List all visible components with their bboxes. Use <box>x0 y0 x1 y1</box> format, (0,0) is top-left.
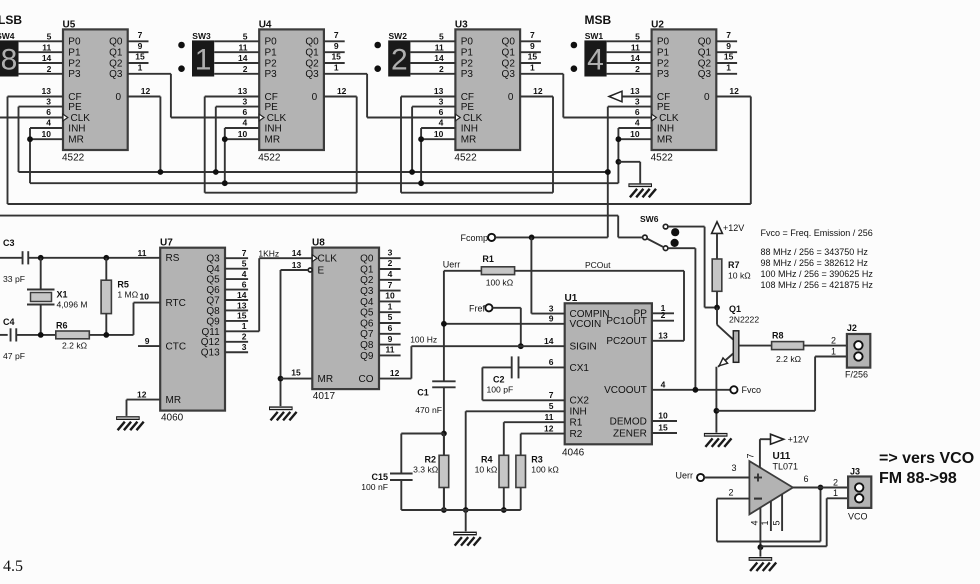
svg-text:1: 1 <box>833 488 838 498</box>
svg-text:C2: C2 <box>493 375 505 385</box>
svg-text:4522: 4522 <box>651 153 674 164</box>
svg-text:12: 12 <box>729 86 739 96</box>
svg-text:R1: R1 <box>482 254 494 264</box>
svg-text:R4: R4 <box>481 455 493 465</box>
svg-text:4: 4 <box>242 269 247 279</box>
svg-text:Q12: Q12 <box>201 337 220 348</box>
svg-text:5: 5 <box>635 32 640 42</box>
svg-text:7: 7 <box>334 30 339 40</box>
svg-text:9: 9 <box>726 41 731 51</box>
svg-text:2: 2 <box>661 310 666 320</box>
svg-text:7: 7 <box>745 453 755 458</box>
svg-text:9: 9 <box>138 41 143 51</box>
svg-text:CLK: CLK <box>318 254 338 265</box>
svg-text:C15: C15 <box>371 472 388 482</box>
svg-text:100 kΩ: 100 kΩ <box>531 465 559 475</box>
svg-text:P0: P0 <box>68 37 81 48</box>
svg-text:10: 10 <box>385 291 395 301</box>
svg-text:R2: R2 <box>424 455 436 465</box>
svg-text:SW4: SW4 <box>0 31 15 41</box>
svg-text:2: 2 <box>439 64 444 74</box>
svg-text:108 MHz / 256 = 421875 Hz: 108 MHz / 256 = 421875 Hz <box>761 280 874 290</box>
svg-text:Q3: Q3 <box>502 69 516 80</box>
svg-text:1KHz: 1KHz <box>258 249 279 259</box>
svg-text:INH: INH <box>570 407 587 418</box>
svg-text:100 pF: 100 pF <box>487 385 514 395</box>
svg-text:U3: U3 <box>455 20 468 31</box>
svg-text:MR: MR <box>166 395 182 406</box>
svg-text:11: 11 <box>435 42 444 52</box>
svg-text:4: 4 <box>661 379 666 389</box>
svg-text:MSB: MSB <box>585 13 612 27</box>
svg-text:Q3: Q3 <box>360 286 374 297</box>
svg-text:2N2222: 2N2222 <box>729 315 759 325</box>
svg-text:PE: PE <box>265 102 279 113</box>
svg-text:INH: INH <box>265 123 282 134</box>
svg-text:3: 3 <box>242 342 247 352</box>
svg-text:98 MHz / 256 = 382612 Hz: 98 MHz / 256 = 382612 Hz <box>761 258 869 268</box>
svg-text:Q7: Q7 <box>206 295 220 306</box>
svg-text:12: 12 <box>137 390 147 400</box>
svg-text:Q3: Q3 <box>698 69 712 80</box>
svg-text:P1: P1 <box>657 48 670 59</box>
svg-text:100 kΩ: 100 kΩ <box>486 278 514 288</box>
svg-text:MR: MR <box>657 135 673 146</box>
svg-text:INH: INH <box>68 123 85 134</box>
svg-text:Q6: Q6 <box>360 318 374 329</box>
svg-text:CTC: CTC <box>166 342 187 353</box>
svg-text:VCOIN: VCOIN <box>570 319 602 330</box>
svg-text:6: 6 <box>439 107 444 117</box>
svg-text:Q8: Q8 <box>206 306 220 317</box>
svg-text:2: 2 <box>388 258 393 268</box>
svg-text:P1: P1 <box>461 48 474 59</box>
svg-text:4522: 4522 <box>454 153 477 164</box>
svg-text:2: 2 <box>47 64 52 74</box>
svg-text:PE: PE <box>68 102 82 113</box>
svg-text:33 pF: 33 pF <box>3 274 25 284</box>
svg-text:2: 2 <box>833 477 838 487</box>
svg-text:1: 1 <box>760 520 770 525</box>
svg-text:0: 0 <box>115 92 121 103</box>
svg-text:1: 1 <box>242 321 247 331</box>
svg-text:U4: U4 <box>259 20 272 31</box>
svg-text:Q7: Q7 <box>360 329 374 340</box>
svg-text:15: 15 <box>135 52 145 62</box>
svg-text:P1: P1 <box>68 48 81 59</box>
svg-text:INH: INH <box>657 123 674 134</box>
svg-text:Q1: Q1 <box>502 48 516 59</box>
svg-text:7: 7 <box>530 30 535 40</box>
svg-text:12: 12 <box>544 423 554 433</box>
svg-text:4: 4 <box>46 118 51 128</box>
svg-text:Q2: Q2 <box>360 275 374 286</box>
svg-text:6: 6 <box>242 107 247 117</box>
svg-text:12: 12 <box>141 86 151 96</box>
svg-text:6: 6 <box>46 107 51 117</box>
svg-text:11: 11 <box>42 42 51 52</box>
svg-text:C1: C1 <box>417 388 429 398</box>
svg-text:RTC: RTC <box>166 298 186 309</box>
svg-text:CLK: CLK <box>463 113 483 124</box>
svg-text:P3: P3 <box>461 69 474 80</box>
svg-text:5: 5 <box>439 32 444 42</box>
svg-text:13: 13 <box>238 86 248 96</box>
svg-text:8: 8 <box>1 44 18 77</box>
svg-text:P3: P3 <box>68 69 81 80</box>
svg-text:3: 3 <box>635 96 640 106</box>
svg-text:1: 1 <box>388 301 393 311</box>
svg-text:SW2: SW2 <box>389 31 408 41</box>
svg-text:15: 15 <box>291 368 301 378</box>
svg-text:Uerr: Uerr <box>676 471 694 481</box>
svg-text:2: 2 <box>243 64 248 74</box>
svg-text:7: 7 <box>726 30 731 40</box>
svg-text:E: E <box>318 265 325 276</box>
svg-text:J3: J3 <box>850 467 860 477</box>
svg-text:Q0: Q0 <box>360 254 374 265</box>
svg-text:11: 11 <box>386 345 395 355</box>
svg-text:Q2: Q2 <box>698 58 712 69</box>
svg-text:1: 1 <box>530 63 535 73</box>
svg-text:SIGIN: SIGIN <box>570 342 597 353</box>
svg-text:LSB: LSB <box>0 13 22 27</box>
svg-text:CX1: CX1 <box>570 363 590 374</box>
svg-text:10: 10 <box>238 129 248 139</box>
svg-text:MR: MR <box>68 135 84 146</box>
svg-text:R6: R6 <box>56 321 68 331</box>
svg-text:Q2: Q2 <box>305 58 319 69</box>
svg-text:1: 1 <box>831 347 836 357</box>
svg-text:2: 2 <box>635 64 640 74</box>
svg-text:1: 1 <box>195 44 212 77</box>
svg-text:10 kΩ: 10 kΩ <box>475 465 498 475</box>
svg-text:3: 3 <box>439 96 444 106</box>
svg-text:R5: R5 <box>117 280 129 290</box>
svg-text:2.2 kΩ: 2.2 kΩ <box>776 354 802 364</box>
svg-text:6: 6 <box>549 357 554 367</box>
svg-text:6: 6 <box>388 323 393 333</box>
svg-text:J2: J2 <box>847 323 857 333</box>
svg-text:ZENER: ZENER <box>613 428 647 439</box>
svg-text:CX2: CX2 <box>570 396 590 407</box>
svg-text:3: 3 <box>731 463 736 473</box>
svg-text:Q1: Q1 <box>729 304 741 314</box>
svg-text:CO: CO <box>359 374 374 385</box>
svg-text:4: 4 <box>242 118 247 128</box>
svg-text:=> vers VCO: => vers VCO <box>879 450 974 467</box>
svg-text:9: 9 <box>549 314 554 324</box>
svg-text:14: 14 <box>292 248 302 258</box>
svg-text:Fref: Fref <box>469 304 486 314</box>
svg-text:U11: U11 <box>773 451 791 462</box>
svg-text:P2: P2 <box>461 58 474 69</box>
svg-text:4.5: 4.5 <box>3 558 23 575</box>
svg-text:Uerr: Uerr <box>443 259 461 269</box>
svg-text:0: 0 <box>704 92 710 103</box>
svg-text:Q2: Q2 <box>109 58 123 69</box>
svg-text:11: 11 <box>631 42 640 52</box>
svg-text:11: 11 <box>138 248 147 258</box>
svg-text:3: 3 <box>388 247 393 257</box>
svg-text:Q3: Q3 <box>109 69 123 80</box>
svg-text:U8: U8 <box>312 237 325 248</box>
svg-text:P0: P0 <box>657 37 670 48</box>
svg-text:47 pF: 47 pF <box>3 351 25 361</box>
svg-text:U2: U2 <box>651 20 664 31</box>
svg-text:X1: X1 <box>57 290 68 300</box>
svg-text:U5: U5 <box>63 20 76 31</box>
svg-text:100 MHz / 256 = 390625 Hz: 100 MHz / 256 = 390625 Hz <box>761 269 874 279</box>
svg-text:P0: P0 <box>265 37 278 48</box>
svg-text:Q1: Q1 <box>305 48 319 59</box>
svg-text:Q1: Q1 <box>698 48 712 59</box>
svg-text:P2: P2 <box>68 58 81 69</box>
svg-text:12: 12 <box>390 368 400 378</box>
svg-text:1: 1 <box>726 63 731 73</box>
svg-text:13: 13 <box>630 86 640 96</box>
svg-text:Q0: Q0 <box>305 37 319 48</box>
svg-text:14: 14 <box>237 290 247 300</box>
svg-text:9: 9 <box>388 334 393 344</box>
svg-text:PE: PE <box>461 102 475 113</box>
svg-text:13: 13 <box>658 330 668 340</box>
svg-text:Q5: Q5 <box>360 308 374 319</box>
svg-text:13: 13 <box>42 86 52 96</box>
svg-text:14: 14 <box>238 53 248 63</box>
svg-text:13: 13 <box>434 86 444 96</box>
svg-text:F/256: F/256 <box>845 370 868 380</box>
svg-text:4522: 4522 <box>258 153 281 164</box>
svg-text:9: 9 <box>145 336 150 346</box>
svg-text:INH: INH <box>461 123 478 134</box>
svg-text:PCOut: PCOut <box>585 260 611 270</box>
svg-text:CLK: CLK <box>659 113 679 124</box>
svg-text:FM 88->98: FM 88->98 <box>879 470 957 487</box>
svg-text:14: 14 <box>630 53 640 63</box>
svg-text:Q3: Q3 <box>305 69 319 80</box>
svg-text:4017: 4017 <box>313 391 336 402</box>
svg-text:4: 4 <box>635 118 640 128</box>
svg-text:CLK: CLK <box>71 113 91 124</box>
svg-text:10: 10 <box>434 129 444 139</box>
svg-text:Q11: Q11 <box>202 327 221 338</box>
svg-text:PE: PE <box>657 102 671 113</box>
svg-text:Q1: Q1 <box>360 264 374 275</box>
svg-text:7: 7 <box>242 248 247 258</box>
svg-text:DEMOD: DEMOD <box>610 416 647 427</box>
svg-text:4: 4 <box>439 118 444 128</box>
svg-text:R3: R3 <box>531 455 543 465</box>
svg-text:6: 6 <box>242 279 247 289</box>
svg-text:3: 3 <box>46 96 51 106</box>
svg-text:2.2 kΩ: 2.2 kΩ <box>62 341 88 351</box>
svg-text:1 MΩ: 1 MΩ <box>117 290 138 300</box>
svg-text:7: 7 <box>138 30 143 40</box>
svg-text:Q3: Q3 <box>206 254 220 265</box>
svg-text:P2: P2 <box>265 58 278 69</box>
svg-text:5: 5 <box>47 32 52 42</box>
svg-text:P3: P3 <box>657 69 670 80</box>
svg-text:5: 5 <box>242 258 247 268</box>
svg-text:P3: P3 <box>265 69 278 80</box>
svg-text:3: 3 <box>242 96 247 106</box>
svg-text:3.3 kΩ: 3.3 kΩ <box>413 465 439 475</box>
svg-text:R8: R8 <box>772 330 784 340</box>
svg-text:10: 10 <box>658 411 668 421</box>
svg-text:RS: RS <box>166 253 180 264</box>
svg-text:100 nF: 100 nF <box>361 482 388 492</box>
svg-text:15: 15 <box>724 52 734 62</box>
svg-text:Q1: Q1 <box>109 48 123 59</box>
svg-text:Fcomp: Fcomp <box>460 233 488 243</box>
svg-text:Q8: Q8 <box>360 340 374 351</box>
svg-text:Q0: Q0 <box>698 37 712 48</box>
svg-text:13: 13 <box>237 300 247 310</box>
svg-text:10: 10 <box>630 129 640 139</box>
svg-text:5: 5 <box>243 32 248 42</box>
svg-text:Q0: Q0 <box>502 37 516 48</box>
svg-text:9: 9 <box>530 41 535 51</box>
svg-text:5: 5 <box>388 312 393 322</box>
svg-text:5: 5 <box>772 520 782 525</box>
svg-text:15: 15 <box>658 423 668 433</box>
svg-text:CLK: CLK <box>267 113 287 124</box>
svg-text:11: 11 <box>239 42 248 52</box>
svg-text:Q0: Q0 <box>109 37 123 48</box>
svg-text:13: 13 <box>292 260 302 270</box>
svg-text:VCOOUT: VCOOUT <box>604 385 647 396</box>
svg-text:1: 1 <box>334 63 339 73</box>
svg-text:Fvco: Fvco <box>742 385 762 395</box>
svg-text:15: 15 <box>237 311 247 321</box>
svg-text:2: 2 <box>242 332 247 342</box>
svg-text:C4: C4 <box>3 317 15 327</box>
svg-text:TL071: TL071 <box>773 462 799 472</box>
svg-text:+12V: +12V <box>723 223 744 233</box>
svg-text:SW3: SW3 <box>192 31 211 41</box>
svg-text:Q2: Q2 <box>502 58 516 69</box>
svg-text:11: 11 <box>545 412 554 422</box>
svg-text:4,096 M: 4,096 M <box>57 300 88 310</box>
svg-text:P0: P0 <box>461 37 474 48</box>
svg-text:Q6: Q6 <box>206 285 220 296</box>
svg-text:SW1: SW1 <box>585 31 604 41</box>
svg-text:4060: 4060 <box>161 413 184 424</box>
svg-text:12: 12 <box>337 86 347 96</box>
svg-text:R1: R1 <box>570 418 583 429</box>
svg-text:14: 14 <box>42 53 52 63</box>
svg-text:4: 4 <box>587 44 604 77</box>
svg-text:P1: P1 <box>265 48 278 59</box>
svg-text:15: 15 <box>331 52 341 62</box>
svg-text:VCO: VCO <box>848 512 868 522</box>
svg-text:10: 10 <box>42 129 52 139</box>
svg-text:14: 14 <box>434 53 444 63</box>
svg-text:4046: 4046 <box>562 448 585 459</box>
svg-text:15: 15 <box>528 52 538 62</box>
svg-text:MR: MR <box>318 374 334 385</box>
svg-text:Q4: Q4 <box>206 264 220 275</box>
svg-text:PC1OUT: PC1OUT <box>606 316 647 327</box>
svg-text:5: 5 <box>549 401 554 411</box>
svg-text:0: 0 <box>508 92 514 103</box>
svg-text:14: 14 <box>544 336 554 346</box>
svg-text:12: 12 <box>533 86 543 96</box>
svg-text:Q13: Q13 <box>201 348 220 359</box>
svg-text:9: 9 <box>334 41 339 51</box>
svg-text:U7: U7 <box>160 238 173 249</box>
svg-text:6: 6 <box>635 107 640 117</box>
svg-text:88 MHz / 256 = 343750 Hz: 88 MHz / 256 = 343750 Hz <box>761 247 869 257</box>
svg-text:2: 2 <box>391 44 408 77</box>
svg-text:1: 1 <box>138 63 143 73</box>
svg-text:7: 7 <box>549 390 554 400</box>
svg-text:4: 4 <box>750 520 760 525</box>
svg-text:10 kΩ: 10 kΩ <box>728 271 751 281</box>
svg-text:MR: MR <box>461 135 477 146</box>
svg-text:+12V: +12V <box>788 435 809 445</box>
svg-text:C3: C3 <box>3 238 15 248</box>
svg-text:R2: R2 <box>570 429 583 440</box>
svg-text:2: 2 <box>728 488 733 498</box>
svg-text:Q9: Q9 <box>360 351 374 362</box>
svg-text:Q4: Q4 <box>360 297 374 308</box>
svg-text:SW6: SW6 <box>640 214 659 224</box>
svg-text:4: 4 <box>388 269 393 279</box>
svg-text:4522: 4522 <box>62 153 85 164</box>
svg-text:0: 0 <box>312 92 318 103</box>
svg-text:3: 3 <box>549 303 554 313</box>
svg-text:R7: R7 <box>728 260 740 270</box>
svg-text:MR: MR <box>265 135 281 146</box>
svg-text:Q5: Q5 <box>206 275 220 286</box>
svg-text:100 Hz: 100 Hz <box>410 335 437 345</box>
svg-text:2: 2 <box>831 335 836 345</box>
svg-text:PC2OUT: PC2OUT <box>606 336 647 347</box>
svg-text:10: 10 <box>140 292 150 302</box>
svg-text:7: 7 <box>388 280 393 290</box>
svg-text:Fvco = Freq. Emission / 256: Fvco = Freq. Emission / 256 <box>761 228 873 238</box>
svg-text:Q9: Q9 <box>206 316 220 327</box>
svg-text:P2: P2 <box>657 58 670 69</box>
svg-text:470 nF: 470 nF <box>415 405 442 415</box>
svg-text:U1: U1 <box>565 293 578 304</box>
svg-text:6: 6 <box>803 474 808 484</box>
